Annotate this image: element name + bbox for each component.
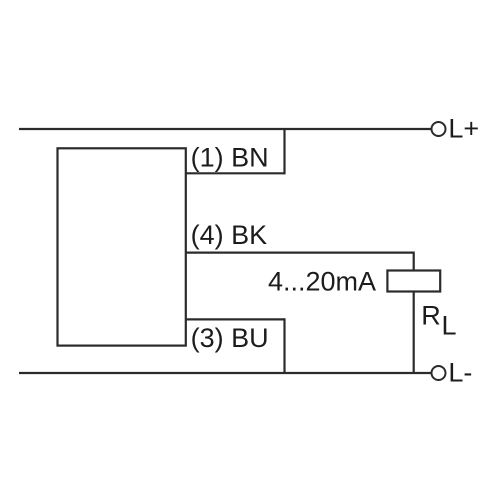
wire resistor to L- rail [413,292,415,375]
wire pin3 BU vertical to L- [283,318,285,374]
svg-text:(4) BK: (4) BK [191,220,268,250]
svg-text:(3) BU: (3) BU [191,323,269,353]
svg-text:4...20mA: 4...20mA [268,267,376,297]
wire L+ rail (top) [19,128,431,130]
wire pin3 BU horizontal [186,318,285,320]
wire L- rail (bottom) [19,372,431,374]
wire pin4 BK vertical to resistor [413,252,415,271]
wire pin1 BN horizontal [186,172,285,174]
svg-text:L: L [442,311,457,341]
wire pin4 BK horizontal [186,252,414,254]
sensor box U1 [58,148,186,345]
svg-text:L+: L+ [448,113,479,143]
resistor RL body [387,271,440,292]
wire pin1 BN vertical to L+ [283,128,285,174]
svg-text:L-: L- [448,357,472,387]
svg-text:R: R [421,300,441,330]
svg-text:(1) BN: (1) BN [191,142,269,172]
terminal L- [432,366,446,380]
terminal L+ [432,122,446,136]
